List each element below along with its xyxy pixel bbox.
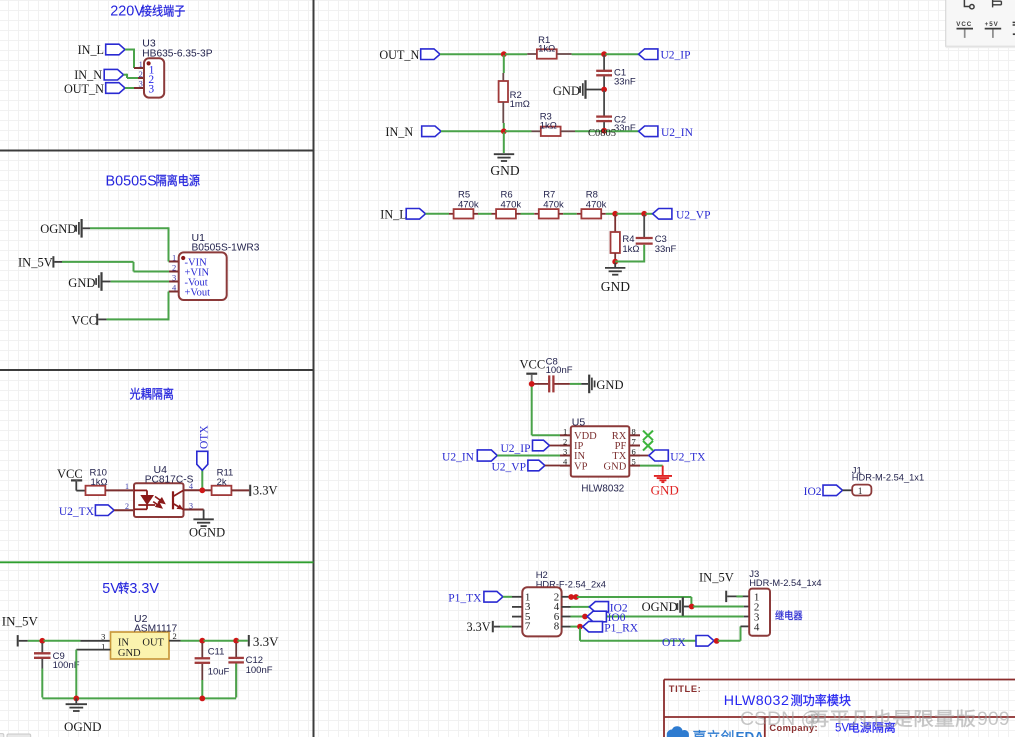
junction (601, 51, 607, 57)
net port 3.3V tick (248, 635, 250, 646)
svg-text:VCC: VCC (520, 357, 546, 371)
wire pin2 to OGND (577, 596, 691, 598)
svg-text:5: 5 (632, 457, 636, 467)
capacitor C3 (643, 215, 645, 237)
svg-text:OUT_N: OUT_N (379, 48, 419, 62)
svg-text:100nF: 100nF (546, 365, 573, 376)
toolbar +5V symbol (985, 21, 999, 28)
ground OGND (earth) (203, 510, 205, 519)
optocoupler U4 body PC817C-S (134, 483, 184, 517)
svg-text:OGND: OGND (189, 526, 225, 540)
wire J3 pin3 stub (744, 616, 749, 618)
wire (550, 445, 561, 447)
svg-text:470k: 470k (586, 199, 607, 210)
svg-text:100nF: 100nF (246, 665, 273, 676)
section title B0505S隔离电源 (106, 173, 200, 189)
section divider horizontal 2 (0, 369, 314, 371)
toolbar VCC symbol (956, 21, 972, 28)
svg-text:IN_5V: IN_5V (699, 570, 734, 584)
svg-text:P1_RX: P1_RX (604, 622, 639, 634)
EDA logo (partial) (667, 726, 689, 737)
section title 5V转3.3V (102, 581, 159, 597)
svg-text:1: 1 (563, 426, 567, 436)
svg-text:1: 1 (858, 487, 863, 497)
junction (601, 87, 607, 93)
junction (714, 638, 720, 644)
wire (684, 606, 691, 608)
svg-text:1: 1 (139, 59, 143, 69)
junction (568, 594, 574, 600)
wire ground rail (42, 697, 236, 699)
company name 5V电源隔离 (835, 722, 895, 735)
junction (73, 696, 79, 702)
net port P1_RX (583, 621, 603, 632)
svg-text:3: 3 (101, 631, 105, 641)
resistor R8 (577, 189, 607, 218)
wire pin6 to J3 pin3 (571, 616, 744, 618)
wire (563, 213, 577, 215)
wire R2 top (503, 55, 505, 73)
no-connect X pin8 (643, 431, 653, 451)
net 继电器 label (775, 610, 802, 620)
net port IN_5V tick (725, 591, 727, 602)
svg-text:1kΩ: 1kΩ (622, 244, 639, 255)
svg-text:470k: 470k (458, 199, 479, 210)
svg-text:U2_TX: U2_TX (670, 451, 706, 463)
svg-text:10uF: 10uF (208, 667, 230, 678)
resistor R1 (537, 35, 557, 59)
wire (497, 455, 560, 457)
svg-text:GND: GND (596, 378, 623, 392)
svg-text:+5V: +5V (985, 21, 999, 28)
ground OGND (earth) (75, 698, 77, 703)
junction (199, 487, 205, 493)
svg-text:U2_VP: U2_VP (676, 210, 711, 222)
H2 stub pin5 (512, 616, 522, 618)
junction (233, 638, 239, 644)
svg-text:3.3V: 3.3V (467, 620, 491, 634)
svg-text:2: 2 (563, 437, 567, 447)
junction (689, 604, 695, 610)
connector U3 pins (134, 67, 144, 69)
svg-text:B0505S-1WR3: B0505S-1WR3 (192, 242, 260, 253)
net port U2_IN (477, 450, 497, 461)
svg-text:U2_IN: U2_IN (442, 452, 475, 464)
H2 stub pin3 (512, 606, 522, 608)
junction (501, 128, 507, 134)
net port U2_TX (640, 455, 649, 457)
capacitor C1 (603, 55, 605, 70)
wire (205, 489, 212, 491)
svg-text:1: 1 (125, 482, 129, 491)
wire (125, 87, 134, 89)
capacitor C12 (235, 643, 237, 657)
junction (612, 259, 618, 265)
junction (39, 638, 45, 644)
net port OUT_N (421, 49, 440, 60)
net port OTX (696, 636, 714, 647)
resistor R7 (534, 189, 564, 218)
svg-text:7: 7 (632, 437, 636, 447)
net port IN_N (422, 126, 441, 137)
H2 stub pin4 (562, 606, 571, 608)
svg-text:33nF: 33nF (614, 76, 636, 87)
junction (529, 381, 535, 387)
capacitor C9 (41, 643, 43, 653)
wire pin4 U4 (184, 489, 202, 491)
net port 3.3V tick (492, 621, 494, 632)
wire OTX stem (201, 470, 203, 490)
svg-text:909: 909 (977, 708, 1010, 730)
toolbar icon net-port (964, 0, 974, 9)
power VCC T-symbol (526, 373, 537, 375)
wire (615, 261, 645, 263)
net port U2_TX (95, 505, 114, 516)
net port IN_5V tick (52, 256, 54, 267)
U4 light arrows (153, 497, 164, 508)
connector U3 body HB635-6.35-3P (144, 58, 164, 97)
junction (641, 211, 647, 217)
junction (582, 614, 588, 620)
svg-text:IN_5V: IN_5V (18, 256, 53, 270)
wire J3 pin2 stub (744, 606, 749, 608)
net port VCC tick (96, 314, 98, 325)
svg-text:HDR-M-2.54_1x4: HDR-M-2.54_1x4 (749, 578, 821, 588)
svg-text:220V: 220V (110, 4, 144, 20)
capacitor C2 (603, 91, 605, 116)
svg-text:IO2: IO2 (804, 486, 822, 498)
section divider vertical (313, 0, 315, 737)
wire (606, 213, 614, 215)
junction (612, 211, 618, 217)
net port IN_L (406, 209, 425, 220)
svg-text:1kΩ: 1kΩ (538, 44, 555, 55)
net port U2_VP (528, 460, 545, 471)
svg-text:1: 1 (172, 253, 176, 263)
wire to GND (503, 132, 505, 153)
wire (605, 130, 638, 132)
wire pin3 U4 (184, 509, 204, 511)
junction (573, 594, 579, 600)
wire (571, 626, 579, 628)
wire (587, 89, 603, 91)
net port IN_5V tick (17, 635, 19, 646)
svg-text:U2_IP: U2_IP (661, 50, 691, 62)
svg-text:IN_L: IN_L (380, 207, 406, 221)
wire (605, 53, 638, 55)
capacitor C8 (534, 383, 548, 385)
svg-text:+Vout: +Vout (185, 287, 211, 298)
U3 pin-1 marker dot (147, 61, 151, 65)
U5 pin names left (574, 431, 597, 472)
svg-text:GND: GND (601, 279, 630, 294)
net port OTX (down) (197, 451, 208, 470)
wire (545, 465, 560, 467)
svg-text:U2_IP: U2_IP (500, 443, 530, 455)
wire (426, 213, 450, 215)
ground GND (bar style) (588, 375, 590, 394)
module U1 body B0505S-1WR3 (179, 252, 227, 300)
junction (199, 638, 205, 644)
svg-text:CSDN @: CSDN @ (740, 708, 820, 730)
svg-text:8: 8 (632, 426, 636, 436)
wire (571, 606, 590, 608)
svg-text:2: 2 (172, 263, 176, 273)
svg-text:GND: GND (490, 163, 519, 178)
net port U2_IP (639, 49, 658, 60)
wire (521, 213, 535, 215)
svg-text:U2_TX: U2_TX (59, 506, 95, 518)
wire U2 OUT (169, 640, 181, 642)
svg-text:GND: GND (651, 482, 679, 497)
net port IO2 (823, 485, 843, 496)
wire (570, 383, 581, 385)
section title 光耦隔离 (130, 388, 173, 400)
svg-text:3: 3 (139, 78, 143, 88)
connector J1 body HDR-M-2.54_1x1 (852, 485, 871, 496)
junction (577, 624, 583, 630)
wire (617, 213, 643, 215)
wire (503, 596, 512, 598)
svg-text:U2_VP: U2_VP (491, 462, 526, 474)
svg-text:IN_L: IN_L (78, 43, 104, 57)
junction (199, 696, 205, 702)
wire pin1 U4 (105, 489, 134, 491)
net port IO0 (587, 611, 606, 622)
resistor R5 (449, 189, 479, 218)
net port U2_VP (653, 209, 672, 220)
wire (646, 213, 653, 215)
svg-text:3.3V: 3.3V (253, 634, 279, 649)
svg-text:OUT_N: OUT_N (64, 82, 104, 96)
junction (501, 51, 507, 57)
wire to J3 pin2 (693, 606, 744, 608)
wire pin8 down to OTX row (579, 628, 581, 641)
green divider line (0, 561, 314, 563)
net port 3.3V tick (249, 485, 251, 496)
svg-text:4: 4 (754, 621, 760, 633)
svg-text:B0505S: B0505S (106, 173, 157, 189)
svg-text:GND: GND (604, 461, 627, 472)
wire (76, 490, 85, 492)
wire U2 GND (76, 649, 110, 651)
toolbar panel (946, 0, 1015, 46)
ui chip bottom-left (0, 734, 4, 737)
wire (494, 626, 500, 628)
wire (440, 53, 503, 55)
svg-text:7: 7 (525, 621, 531, 633)
net port P1_TX (484, 591, 503, 602)
wire (19, 640, 28, 642)
svg-text:2k: 2k (217, 477, 227, 488)
net port U2_IP (533, 440, 550, 451)
wire (83, 227, 90, 229)
ground OGND (bar style) (682, 597, 684, 616)
wire (843, 489, 853, 491)
svg-text:C0805: C0805 (588, 128, 616, 139)
svg-text:C11: C11 (208, 647, 225, 658)
IC U5 body HLW8032 (571, 426, 630, 476)
svg-text:GND: GND (553, 84, 580, 98)
net port U2_IN (639, 126, 658, 137)
U4 LED cathode routing (146, 505, 148, 509)
ground GND (earth) (494, 153, 514, 155)
H2 stub pin2 (562, 596, 569, 598)
connector J3 body HDR-M-2.54_1x4 (749, 589, 770, 636)
regulator U2 body ASM1117 (111, 632, 170, 659)
svg-text:HB635-6.35-3P: HB635-6.35-3P (142, 48, 212, 59)
wire (441, 130, 503, 132)
svg-text:IN_5V: IN_5V (2, 613, 39, 628)
svg-text:8: 8 (554, 621, 560, 633)
wire (204, 640, 236, 642)
watermark CSDN (740, 708, 1010, 730)
svg-text:33nF: 33nF (614, 123, 636, 134)
resistor R11 (212, 467, 234, 495)
capacitor C11 (201, 643, 203, 658)
svg-text:OTX: OTX (662, 637, 686, 649)
svg-text:3: 3 (172, 273, 176, 283)
resistor R2 (499, 81, 530, 110)
sheet title HLW8032测功率模块 (724, 693, 851, 709)
svg-text:GND: GND (118, 648, 141, 659)
svg-text:IN_N: IN_N (74, 68, 102, 82)
wire pin2 U4 (114, 509, 134, 511)
ground GND (earth) (614, 263, 616, 267)
resistor R3 (540, 112, 561, 136)
svg-text:IN: IN (118, 637, 129, 648)
svg-text:PC817C-S: PC817C-S (145, 475, 194, 486)
section divider horizontal 1 (0, 150, 314, 152)
wire (44, 640, 81, 642)
section title 220V接线端子 (110, 4, 184, 20)
resistor R10 (86, 467, 108, 495)
U4 LED anode routing (134, 489, 147, 491)
svg-text:GND: GND (68, 276, 95, 290)
svg-text:OGND: OGND (40, 222, 76, 236)
power VCC T-symbol (71, 479, 82, 481)
net port IN_L (106, 44, 125, 55)
svg-text:1kΩ: 1kΩ (540, 121, 557, 132)
wire OTX to J3 pin4 (718, 640, 741, 642)
svg-text:2: 2 (139, 69, 143, 79)
net port OUT_N (106, 83, 125, 94)
svg-text:U2_IN: U2_IN (661, 127, 694, 139)
wire pin5 (640, 465, 663, 467)
U4 LED triangle (140, 495, 154, 505)
svg-text:U5: U5 (572, 416, 586, 428)
wire (41, 669, 43, 698)
svg-text:VP: VP (574, 461, 588, 472)
svg-text:OUT: OUT (142, 637, 164, 648)
U4 phototransistor (172, 491, 174, 509)
wire (124, 74, 128, 76)
svg-text:5V: 5V (102, 581, 120, 597)
svg-text:IN_N: IN_N (385, 125, 413, 139)
svg-text:6: 6 (632, 447, 636, 457)
connector H2 body HDR-F-2.54_2x4 (522, 587, 561, 636)
U1 pin-1 marker dot (181, 256, 185, 260)
junction (601, 128, 607, 134)
ground GND (bar style) (584, 80, 586, 99)
module U1 pins (169, 261, 179, 263)
svg-text:33nF: 33nF (655, 244, 677, 255)
svg-text:TITLE:: TITLE: (669, 684, 702, 694)
svg-text:1kΩ: 1kΩ (91, 477, 108, 488)
wire (237, 640, 247, 642)
svg-text:1mΩ: 1mΩ (510, 99, 530, 110)
toolbar partial icon right (1013, 21, 1015, 23)
svg-text:5V: 5V (835, 723, 849, 735)
wire (531, 385, 533, 435)
wire (231, 489, 249, 491)
H2 stub pin6 (562, 616, 571, 618)
wire (505, 53, 527, 55)
H2 stub pin8 (562, 626, 571, 628)
IC U5 pins (560, 434, 571, 436)
svg-text:OGND: OGND (642, 600, 678, 614)
wire R2 bottom (502, 102, 504, 123)
svg-text:3: 3 (563, 447, 567, 457)
svg-text:OTX: OTX (199, 425, 211, 449)
svg-text:VCC: VCC (57, 467, 83, 481)
svg-text:4: 4 (189, 482, 193, 491)
U4 LED cathode bar (138, 504, 155, 506)
wire (614, 253, 616, 260)
wire (727, 595, 749, 597)
svg-text:ASM1117: ASM1117 (134, 624, 178, 635)
svg-text:HDR-M-2.54_1x1: HDR-M-2.54_1x1 (852, 473, 924, 483)
svg-text:3: 3 (189, 501, 193, 510)
svg-text:3.3V: 3.3V (253, 484, 278, 498)
svg-text:470k: 470k (543, 199, 564, 210)
wire (561, 130, 575, 132)
svg-text:3.3V: 3.3V (129, 581, 159, 597)
resistor R4 (614, 215, 616, 232)
resistor R6 (492, 189, 522, 218)
toolbar icon net-flag (993, 0, 1002, 7)
net port IO2 (589, 602, 608, 613)
wire (478, 213, 492, 215)
svg-text:VCC: VCC (71, 314, 97, 328)
wire (125, 49, 134, 51)
svg-text:HLW8032: HLW8032 (581, 484, 624, 495)
svg-text:OGND: OGND (64, 719, 102, 734)
svg-text:3: 3 (148, 84, 154, 96)
wire (505, 130, 532, 132)
wire (54, 261, 62, 263)
svg-text:2: 2 (125, 502, 129, 511)
title block border (664, 680, 1015, 737)
svg-text:EDA: EDA (736, 730, 765, 737)
wire (103, 281, 111, 283)
ground GND (red) (654, 466, 672, 483)
svg-text:VCC: VCC (956, 21, 972, 28)
ground OGND (bar style) (80, 219, 82, 238)
wire (557, 53, 572, 55)
svg-text:P1_TX: P1_TX (448, 593, 482, 605)
ground GND (bar style) (100, 272, 102, 291)
svg-text:HLW8032: HLW8032 (724, 693, 790, 709)
wire (98, 318, 106, 320)
net port IN_N (104, 69, 123, 80)
svg-text:470k: 470k (501, 199, 522, 210)
